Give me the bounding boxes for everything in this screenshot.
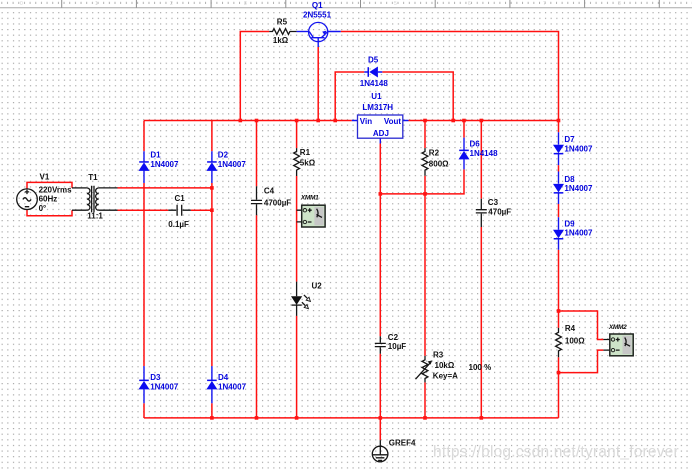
svg-text:1N4007: 1N4007 (150, 382, 179, 391)
svg-text:U2: U2 (312, 282, 323, 291)
svg-text:3: 3 (244, 1, 247, 7)
wire R1 / U2 column (296, 121, 298, 418)
svg-text:1N4007: 1N4007 (218, 382, 247, 391)
wire V1 to T1 bottom (27, 210, 72, 216)
wire R2/R3 column (424, 121, 426, 418)
wire C3 column (480, 121, 482, 418)
diode D9 1N4007 (553, 217, 593, 249)
svg-text:D1: D1 (150, 151, 161, 160)
svg-text:60Hz: 60Hz (39, 195, 58, 204)
wire Vout bus (right of U1) (409, 120, 559, 122)
svg-text:4700µF: 4700µF (264, 198, 291, 207)
svg-text:D6: D6 (470, 140, 481, 149)
junction dots bottom bus (210, 416, 483, 420)
wire D5 right loop (382, 72, 453, 121)
svg-text:D4: D4 (218, 373, 229, 382)
wire D1/D3 column (143, 121, 145, 418)
svg-text:10kΩ: 10kΩ (435, 361, 455, 370)
svg-text:1N4007: 1N4007 (218, 160, 247, 169)
capacitor C2 (375, 333, 407, 354)
resistor R4 100 (556, 324, 586, 357)
AC source V1 (17, 172, 72, 213)
svg-text:R2: R2 (429, 148, 440, 157)
junction dots right rail R4 (557, 309, 561, 374)
svg-text:470µF: 470µF (488, 207, 511, 216)
svg-text:D3: D3 (150, 373, 161, 382)
svg-text:100 %: 100 % (469, 363, 492, 372)
svg-text:0°: 0° (39, 204, 47, 213)
svg-text:XMM1: XMM1 (300, 194, 319, 201)
svg-text:0.1µF: 0.1µF (168, 220, 189, 229)
svg-text:U1: U1 (371, 92, 382, 101)
regulator U1 LM317H (352, 92, 409, 144)
svg-text:C4: C4 (264, 186, 275, 195)
svg-text:Vin: Vin (360, 117, 372, 126)
wire top-left from R5 to left rail down to Vin bus (240, 32, 269, 121)
svg-text:Key=A: Key=A (433, 371, 458, 380)
svg-text:7: 7 (543, 1, 546, 7)
ground GREF4 (372, 439, 416, 462)
svg-text:C1: C1 (175, 194, 186, 203)
svg-text:Q1: Q1 (312, 1, 323, 10)
wire Vin bus (left of U1) (144, 120, 352, 122)
wire D5 left loop (335, 72, 364, 121)
svg-text:Vout: Vout (384, 117, 402, 126)
svg-text:0: 0 (20, 1, 23, 7)
wire D2/D4 column (211, 121, 213, 418)
wire C4 column (256, 121, 258, 418)
wire right rail with D7 D8 D9 R4 (558, 121, 560, 418)
svg-text:C2: C2 (388, 333, 399, 342)
capacitor C4 (251, 186, 291, 215)
svg-text:1N4007: 1N4007 (564, 228, 593, 237)
capacitor C1 (168, 194, 191, 229)
svg-text:2N5551: 2N5551 (303, 11, 332, 20)
svg-text:R1: R1 (300, 148, 311, 157)
svg-text:GREF4: GREF4 (389, 439, 416, 448)
svg-text:8: 8 (618, 1, 621, 7)
svg-text:1kΩ: 1kΩ (273, 36, 289, 45)
transformer T1 (72, 173, 118, 220)
junction dots on Vin bus (239, 119, 338, 123)
svg-text:ADJ: ADJ (373, 129, 389, 138)
wire ADJ column down through C2 to ground (379, 144, 381, 441)
wire bottom bus (144, 417, 559, 419)
resistor R2 800 (422, 148, 449, 176)
diode D7 1N4007 (553, 132, 593, 165)
potentiometer R3 10k (416, 350, 459, 382)
svg-text:5: 5 (394, 1, 397, 7)
svg-text:11:1: 11:1 (87, 212, 103, 221)
svg-text:1N4007: 1N4007 (150, 160, 179, 169)
svg-text:5kΩ: 5kΩ (300, 159, 316, 168)
svg-text:100Ω: 100Ω (565, 337, 585, 346)
svg-text:C3: C3 (488, 198, 499, 207)
diode D2 1N4007 (206, 151, 246, 183)
wire transformer secondary top to D2 column (118, 187, 212, 189)
wire V1 to T1 top (27, 182, 72, 188)
diode D4 1N4007 (206, 366, 246, 403)
resistor R5 1k (269, 18, 296, 45)
svg-text:T1: T1 (88, 173, 98, 182)
svg-text:1N4148: 1N4148 (360, 79, 389, 88)
wire D6 column top (463, 121, 465, 138)
svg-text:1: 1 (95, 1, 98, 7)
svg-text:1N4007: 1N4007 (564, 144, 593, 153)
svg-text:1N4148: 1N4148 (470, 149, 499, 158)
wire ADJ horizontal to D6 bottom (380, 169, 464, 194)
svg-text:2: 2 (170, 1, 173, 7)
junction dots on Vout bus (423, 119, 560, 123)
diode D3 1N4007 (139, 366, 179, 403)
svg-text:XMM2: XMM2 (608, 324, 627, 331)
wire R4 to XMM2 bottom (559, 350, 604, 373)
svg-text:R3: R3 (433, 350, 444, 359)
svg-text:R5: R5 (277, 18, 288, 27)
svg-text:R4: R4 (565, 324, 576, 333)
junction dots bridge area (210, 186, 427, 212)
multimeter probe XMM1 (297, 194, 326, 227)
multimeter probe XMM2 (603, 324, 633, 356)
transistor Q1 2N5551 (297, 1, 341, 47)
diode D5 1N4148 (360, 56, 389, 89)
svg-text:V1: V1 (40, 172, 50, 181)
wire R4 to XMM2 top (559, 311, 604, 340)
svg-text:D7: D7 (564, 135, 575, 144)
LED U2 (291, 282, 322, 316)
wire C1 line (118, 209, 212, 211)
wire top-right from Q1 to right rail (341, 32, 559, 121)
svg-text:800Ω: 800Ω (429, 159, 449, 168)
wire Q1 base to Vin bus (317, 47, 319, 121)
resistor R1 5k (294, 148, 316, 176)
svg-text:https://blog.csdn.net/tyrant_f: https://blog.csdn.net/tyrant_forever (433, 444, 679, 461)
svg-text:1N4007: 1N4007 (564, 184, 593, 193)
svg-text:10µF: 10µF (388, 342, 407, 351)
svg-text:D2: D2 (218, 151, 229, 160)
diode D6 1N4148 (459, 138, 499, 170)
svg-text:220Vrms: 220Vrms (39, 185, 72, 194)
svg-text:D5: D5 (368, 56, 379, 65)
capacitor C3 (476, 198, 511, 227)
diode D1 1N4007 (139, 151, 179, 183)
svg-text:LM317H: LM317H (362, 103, 393, 112)
diode D8 1N4007 (553, 172, 593, 205)
svg-text:6: 6 (468, 1, 471, 7)
